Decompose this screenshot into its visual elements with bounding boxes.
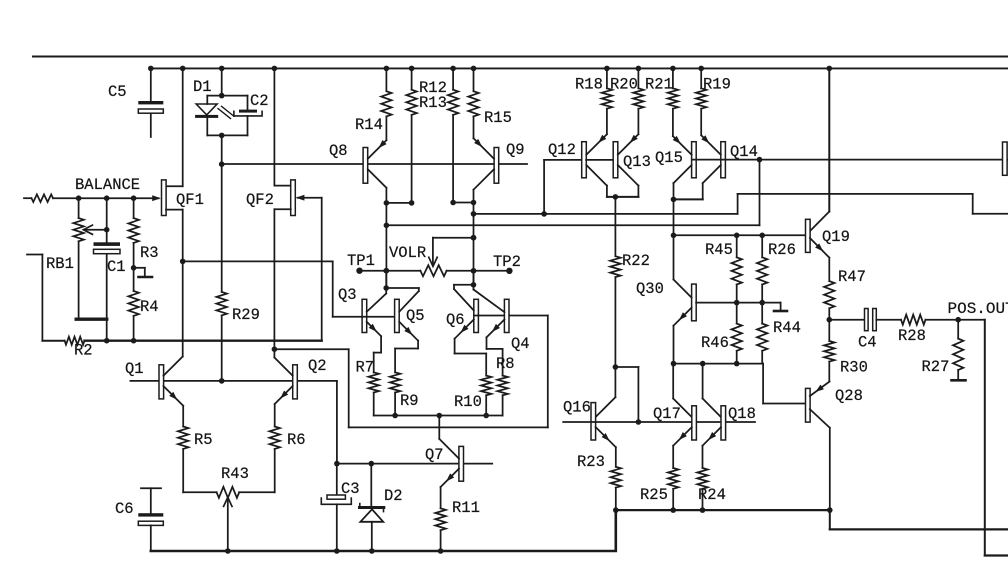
label C4 — [858, 334, 877, 352]
label R23 — [577, 453, 605, 471]
wire Q18 collector — [703, 364, 721, 418]
svg-text:R21: R21 — [645, 76, 673, 94]
svg-text:R10: R10 — [454, 393, 482, 411]
capacitor C5 — [138, 66, 163, 137]
label TP2 — [493, 253, 521, 271]
resistor R44 — [757, 303, 767, 364]
input squiggle — [24, 194, 53, 202]
svg-text:Q1: Q1 — [125, 360, 144, 378]
wire to Q28 base — [763, 364, 806, 404]
wire Q12 base stub — [544, 160, 582, 214]
label R14 — [355, 116, 383, 134]
feedback line with R2 — [27, 255, 322, 345]
transistor Q16 — [591, 403, 616, 448]
resistor R5 — [178, 406, 217, 493]
svg-text:QF1: QF1 — [176, 191, 204, 209]
svg-text:R24: R24 — [698, 486, 726, 504]
svg-text:Q18: Q18 — [728, 405, 756, 423]
label R28 — [898, 327, 926, 345]
potentiometer R43 — [217, 487, 240, 554]
label Q16 — [563, 399, 591, 417]
svg-text:R13: R13 — [419, 94, 447, 112]
svg-text:R44: R44 — [773, 319, 801, 337]
svg-text:R18: R18 — [575, 76, 603, 94]
zener diode D2 — [360, 464, 384, 554]
node Q30 emitter line — [674, 361, 764, 367]
svg-text:C6: C6 — [115, 500, 134, 518]
label R26 — [768, 241, 796, 259]
label Q28 — [835, 387, 863, 405]
svg-text:POS.OUT: POS.OUT — [948, 300, 1008, 318]
node D1-C2 top — [207, 95, 247, 97]
ground at R27 — [952, 379, 966, 382]
resistor R18 — [602, 66, 612, 135]
wire Q15-Q14 base line — [692, 159, 1008, 161]
resistor R25 — [668, 446, 678, 513]
balance net dots — [76, 195, 137, 201]
label Q8 — [329, 142, 348, 160]
resistor R4 — [128, 268, 138, 341]
transistor Q19 — [806, 219, 830, 257]
label C1 — [107, 258, 126, 276]
label RB1 — [46, 255, 74, 273]
label Q5 — [406, 307, 425, 325]
transistor edge right — [1003, 142, 1008, 175]
svg-text:C2: C2 — [250, 92, 269, 110]
svg-text:R25: R25 — [640, 486, 668, 504]
resistor R21 — [668, 66, 678, 137]
label R8 — [496, 355, 515, 373]
label R30 — [840, 359, 868, 377]
svg-text:R14: R14 — [355, 116, 383, 134]
bar RB1-C1 bottom — [76, 318, 107, 321]
label Q2 — [308, 357, 327, 375]
label Q3 — [338, 286, 357, 304]
svg-text:D2: D2 — [384, 487, 403, 505]
resistor R15 — [468, 66, 478, 139]
wire output node — [829, 319, 864, 321]
label R22 — [622, 252, 650, 270]
resistor R20 — [633, 66, 643, 135]
potentiometer VOLR — [420, 235, 476, 276]
svg-text:R5: R5 — [194, 431, 213, 449]
resistor R19 — [696, 66, 706, 136]
label R29 — [232, 306, 260, 324]
svg-text:C3: C3 — [341, 480, 360, 498]
wire QF1 gate arrow — [53, 195, 161, 201]
svg-text:R3: R3 — [140, 244, 159, 262]
negative rail bottom — [151, 510, 616, 551]
resistor R11 — [435, 487, 445, 554]
svg-text:Q19: Q19 — [822, 228, 850, 246]
svg-text:R45: R45 — [705, 241, 733, 259]
svg-text:Q6: Q6 — [446, 311, 465, 329]
label R2 — [74, 342, 93, 360]
label Q12 — [548, 141, 576, 159]
svg-text:RB1: RB1 — [46, 255, 74, 273]
resistor R23 — [611, 447, 621, 510]
node Q9 collector — [450, 200, 476, 285]
label R47 — [838, 268, 866, 286]
label R24 — [698, 486, 726, 504]
wire QF1 source to Q3 base — [183, 261, 362, 316]
jfet QF1 — [162, 180, 167, 216]
svg-text:Q7: Q7 — [425, 446, 444, 464]
svg-text:Q17: Q17 — [653, 405, 681, 423]
label POS.OUT — [948, 300, 1008, 318]
resistor R28 — [901, 315, 985, 325]
svg-text:R20: R20 — [610, 76, 638, 94]
svg-text:Q3: Q3 — [338, 286, 357, 304]
svg-text:QF2: QF2 — [246, 191, 274, 209]
label TP1 — [347, 252, 375, 270]
wire Q16-Q17-Q18 base line — [563, 421, 755, 423]
transistor Q30 — [671, 280, 696, 367]
label Q13 — [623, 153, 651, 171]
svg-text:R15: R15 — [484, 109, 512, 127]
diode D1 — [195, 96, 234, 136]
svg-text:R22: R22 — [622, 252, 650, 270]
transistor Q14 — [701, 135, 725, 199]
label BALANCE — [75, 176, 140, 194]
svg-text:C4: C4 — [858, 334, 877, 352]
label Q14 — [730, 143, 758, 161]
resistor R10 — [455, 339, 492, 416]
resistor R13 — [448, 66, 458, 203]
label D1 — [193, 78, 212, 96]
label R12 — [419, 79, 447, 97]
resistor R22 — [610, 197, 620, 370]
wire Q6-Q4 base — [474, 315, 548, 317]
transistor Q15 — [673, 136, 696, 200]
label Q6 — [446, 311, 465, 329]
svg-text:Q4: Q4 — [511, 335, 530, 353]
node Q3-Q5 collectors — [383, 271, 389, 291]
svg-text:R11: R11 — [452, 499, 480, 517]
svg-text:R19: R19 — [703, 76, 731, 94]
resistor R46 — [732, 303, 742, 364]
svg-text:Q12: Q12 — [548, 141, 576, 159]
emitter bus line — [613, 507, 830, 513]
label R45 — [705, 241, 733, 259]
label Q18 — [728, 405, 756, 423]
wire rail to D1 node — [219, 66, 225, 99]
label R10 — [454, 393, 482, 411]
label QF1 — [176, 191, 204, 209]
resistor R6 — [239, 404, 280, 492]
label C2 — [250, 92, 269, 110]
label R4 — [140, 298, 159, 316]
transistor Q8 — [363, 140, 387, 203]
svg-text:D1: D1 — [193, 78, 212, 96]
svg-text:C1: C1 — [107, 258, 126, 276]
svg-text:R43: R43 — [221, 465, 249, 483]
label Q17 — [653, 405, 681, 423]
transistor Q9 — [474, 138, 499, 202]
svg-text:Q14: Q14 — [730, 143, 758, 161]
transistor Q13 — [613, 134, 638, 197]
wire R22 node to Q16 collector — [596, 367, 616, 417]
label R27 — [922, 358, 950, 376]
wire QF2 source — [272, 209, 291, 357]
label R3 — [140, 244, 159, 262]
label Q4 — [511, 335, 530, 353]
wire QF2 drain — [272, 66, 291, 186]
svg-text:Q8: Q8 — [329, 142, 348, 160]
svg-text:BALANCE: BALANCE — [75, 176, 140, 194]
transistor Q28 — [806, 382, 830, 511]
resistor R45 — [732, 235, 742, 302]
svg-text:R27: R27 — [922, 358, 950, 376]
label R21 — [645, 76, 673, 94]
bus upper right — [738, 194, 1008, 214]
label R19 — [703, 76, 731, 94]
label R13 — [419, 94, 447, 112]
label R20 — [610, 76, 638, 94]
svg-text:Q16: Q16 — [563, 399, 591, 417]
transistor Q3 — [362, 288, 386, 336]
label Q1 — [125, 360, 144, 378]
label QF2 — [246, 191, 274, 209]
svg-text:Q15: Q15 — [655, 149, 683, 167]
label C5 — [108, 83, 127, 101]
svg-text:VOLR: VOLR — [389, 244, 426, 262]
resistor R3 — [128, 198, 138, 270]
svg-text:Q28: Q28 — [835, 387, 863, 405]
test point TP2 — [471, 268, 513, 274]
resistor R26 — [757, 235, 767, 305]
node Q12-Q13 collectors — [607, 194, 639, 200]
bus Q8 collector to Q14 base — [386, 157, 762, 226]
transistor Q7 — [439, 439, 463, 487]
svg-text:R30: R30 — [840, 359, 868, 377]
resistor R30 — [824, 320, 834, 382]
svg-text:R9: R9 — [400, 392, 419, 410]
label D2 — [384, 487, 403, 505]
node Q6-Q4 collectors — [471, 271, 477, 288]
svg-text:R2: R2 — [74, 342, 93, 360]
positive supply rail — [150, 67, 1008, 69]
resistor R29 — [217, 164, 227, 381]
label Q9 — [506, 141, 525, 159]
transistor Q4 — [474, 285, 510, 338]
label R46 — [701, 334, 729, 352]
resistor R7 — [369, 336, 382, 415]
label R43 — [221, 465, 249, 483]
svg-text:TP2: TP2 — [493, 253, 521, 271]
label R44 — [773, 319, 801, 337]
label Q19 — [822, 228, 850, 246]
label Q30 — [636, 280, 664, 298]
bus Q9 collector to Q12 base — [474, 211, 738, 217]
top border line — [33, 56, 1008, 58]
svg-text:R26: R26 — [768, 241, 796, 259]
transistor Q2 — [274, 358, 297, 405]
wire Q3-Q5 base — [362, 316, 397, 318]
resistor R9 — [390, 341, 418, 416]
svg-text:R23: R23 — [577, 453, 605, 471]
wire Q8-Q9 base line — [222, 163, 527, 165]
label C3 — [341, 480, 360, 498]
svg-text:R4: R4 — [140, 298, 159, 316]
wire Q19 collector — [810, 66, 832, 232]
wire QF2 source to Q6 base — [274, 316, 547, 428]
probe symbol R3-R4 node — [134, 268, 152, 277]
resistor R12 — [406, 66, 416, 203]
svg-text:R29: R29 — [232, 306, 260, 324]
capacitor C1 — [94, 198, 121, 341]
label R9 — [400, 392, 419, 410]
capacitor C6 — [138, 488, 163, 551]
label Q15 — [655, 149, 683, 167]
label Q7 — [425, 446, 444, 464]
svg-text:Q2: Q2 — [308, 357, 327, 375]
label R25 — [640, 486, 668, 504]
label R18 — [575, 76, 603, 94]
wire QF1 drain — [166, 66, 186, 187]
transistor Q6 — [454, 285, 478, 339]
label R15 — [484, 109, 512, 127]
svg-text:R7: R7 — [356, 359, 375, 377]
wire Q7 base line — [334, 461, 492, 467]
output step right — [985, 320, 1008, 556]
svg-text:R47: R47 — [838, 268, 866, 286]
transistor Q17 — [673, 406, 696, 446]
svg-text:C5: C5 — [108, 83, 127, 101]
label C6 — [115, 500, 134, 518]
wire QF2 gate — [296, 195, 322, 341]
node Q8 collector — [384, 200, 415, 288]
svg-text:TP1: TP1 — [347, 252, 375, 270]
jfet QF2 — [291, 180, 296, 216]
wire QF1 source — [166, 210, 186, 357]
svg-text:Q30: Q30 — [636, 280, 664, 298]
wire Q1-Q2 base line — [130, 378, 337, 384]
resistor R24 — [697, 446, 707, 513]
transistor Q12 — [582, 134, 607, 197]
wire Q2 base to Q7 base — [336, 381, 338, 464]
svg-text:R8: R8 — [496, 355, 515, 373]
label R11 — [452, 499, 480, 517]
svg-text:R6: R6 — [287, 431, 306, 449]
transistor Q18 — [703, 406, 726, 446]
resistor R27 — [953, 320, 963, 381]
transistor Q1 — [159, 357, 183, 406]
svg-text:R46: R46 — [701, 334, 729, 352]
svg-text:Q5: Q5 — [406, 307, 425, 325]
capacitor C2 — [234, 96, 262, 136]
resistor R47 — [824, 258, 834, 323]
label R7 — [356, 359, 375, 377]
wire Q30 base — [696, 300, 762, 306]
wire R22 node to Q16 base — [615, 367, 641, 425]
capacitor C4 — [865, 309, 902, 331]
wire Q12-Q13 base — [586, 159, 613, 161]
capacitor C3 — [321, 464, 351, 554]
resistor R8 — [487, 337, 508, 415]
svg-text:Q13: Q13 — [623, 153, 651, 171]
ground at R26-R44 node — [762, 303, 787, 311]
node Q15-Q14 collectors — [671, 197, 703, 280]
label R6 — [287, 431, 306, 449]
transistor Q5 — [386, 288, 419, 341]
wire Q19 base line — [674, 233, 806, 239]
label VOLR — [389, 244, 426, 262]
potentiometer RB1 — [73, 198, 109, 319]
node diff-pair tail — [374, 413, 503, 439]
svg-text:R28: R28 — [898, 327, 926, 345]
svg-text:Q9: Q9 — [506, 141, 525, 159]
test point TP1 — [356, 268, 420, 274]
wire Q17 collector — [673, 364, 692, 418]
resistor R14 — [381, 66, 391, 141]
output bus lower — [827, 507, 1008, 529]
node D1-C2 bottom — [207, 133, 247, 167]
label R5 — [194, 431, 213, 449]
